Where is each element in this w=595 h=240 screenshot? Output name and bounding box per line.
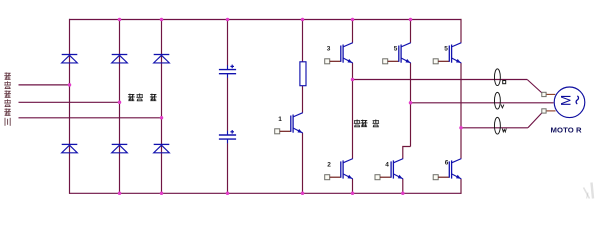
wire: bottom DC- bus	[69, 192, 462, 194]
capacitor C2	[219, 130, 236, 143]
label 整流 器 (rectifier)	[128, 94, 157, 101]
svg-text:5: 5	[444, 46, 448, 53]
wire: capacitor leg middle	[227, 78, 229, 131]
diode VD5	[112, 144, 128, 152]
node: input R	[68, 83, 72, 87]
label 逆变 器 (inverter)	[354, 120, 379, 127]
wire: V7 collector	[460, 19, 462, 43]
transistor V6	[433, 159, 461, 180]
stray scan artifact bottom right	[584, 183, 594, 199]
transistor V4	[375, 159, 403, 180]
wire: phase W diagonal to motor terminal	[528, 113, 542, 128]
motor M1 circle	[554, 87, 585, 118]
diode VD2	[112, 55, 128, 63]
wire: V1 emitter to bottom bus	[302, 133, 304, 193]
wire: brake resistor to V1 collector	[302, 86, 304, 113]
motor tilde (rotated)	[576, 96, 578, 104]
wire: phase W	[461, 127, 528, 129]
wire: phase U	[353, 79, 528, 81]
wire: rectifier leg 3	[161, 20, 163, 194]
label 三相交流电源 (three-phase AC source, vertical)	[4, 72, 11, 125]
diode VD1	[62, 55, 78, 63]
wire: rectifier leg 1 (left edge)	[69, 19, 71, 194]
wire: rectifier leg 2	[119, 20, 121, 194]
node W	[459, 126, 463, 130]
wire: V5 collector	[410, 20, 412, 43]
wire: motor stub U	[546, 93, 555, 95]
transistor V5	[383, 43, 411, 64]
wire: three-phase input T	[19, 117, 162, 119]
transistor V3	[325, 43, 353, 64]
svg-text:M: M	[558, 95, 573, 106]
label v	[501, 105, 504, 108]
transistor V1 (brake)	[275, 113, 303, 134]
node: bottom bus junctions	[118, 192, 122, 196]
CT phase V	[494, 92, 500, 109]
CT phase W	[494, 117, 500, 134]
wire: V7 emitter to node W and V6 collector	[460, 63, 462, 159]
node: input T	[160, 116, 164, 120]
wire: top DC+ bus	[69, 19, 462, 21]
diode VD4	[62, 144, 78, 152]
svg-text:5: 5	[394, 46, 398, 53]
node: input S	[118, 101, 122, 105]
transistor V2	[325, 159, 353, 180]
CT phase U	[494, 69, 500, 86]
wire: brake leg above resistor	[302, 20, 304, 62]
svg-text:2: 2	[327, 162, 331, 169]
node U	[351, 78, 355, 82]
wire: V3 emitter to node U and V2 collector	[352, 63, 354, 159]
wire: capacitor leg top	[227, 20, 229, 66]
wire: V4 emitter to bottom bus	[402, 179, 404, 193]
svg-text:3: 3	[327, 46, 331, 53]
wire: V5 emitter to node V	[410, 63, 412, 147]
svg-text:MOTO R: MOTO R	[551, 125, 583, 134]
wire: motor stub W	[546, 110, 555, 112]
transistor V7	[433, 43, 461, 64]
wire: jog to V4 collector	[403, 147, 411, 159]
svg-text:1: 1	[278, 116, 282, 123]
resistor R (brake)	[300, 62, 306, 86]
wire: three-phase input S	[19, 101, 120, 103]
wire: V2 emitter to bottom bus	[352, 179, 354, 193]
wire: phase V	[411, 102, 554, 104]
svg-text:4: 4	[385, 162, 389, 169]
wire: V3 collector	[352, 20, 354, 43]
wire: phase U diagonal to motor terminal	[527, 80, 542, 94]
capacitor C1	[219, 65, 236, 78]
node: top bus junctions	[118, 18, 122, 22]
label w	[502, 129, 506, 132]
label u	[503, 81, 506, 84]
terminal square U	[542, 92, 546, 96]
svg-text:6: 6	[445, 160, 449, 167]
wire: capacitor leg bottom	[227, 143, 229, 193]
diode VD3	[154, 55, 170, 63]
diode VD6	[154, 144, 170, 152]
wire: V6 emitter to bottom bus	[460, 179, 462, 194]
node V	[409, 101, 413, 105]
wire: three-phase input R	[19, 84, 70, 86]
terminal square W	[542, 109, 546, 113]
